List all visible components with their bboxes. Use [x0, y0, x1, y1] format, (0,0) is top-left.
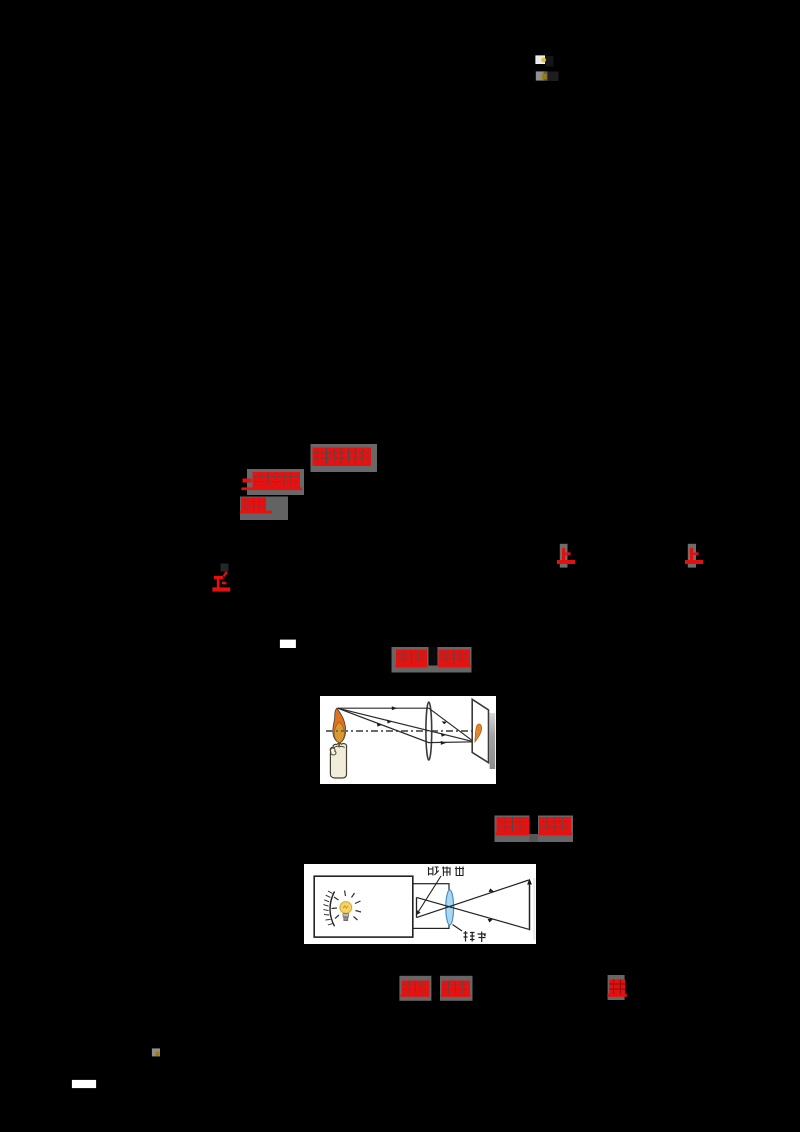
ray arrowheads	[377, 706, 447, 745]
label: jing tou (lens) pseudo-glyphs	[464, 931, 487, 942]
ray arrowheads	[488, 888, 494, 922]
convex lens (vertical ellipse)	[426, 702, 432, 760]
red single char answer (x~616) on gray box	[607, 975, 627, 1000]
slide (film) vertical line	[416, 897, 418, 917]
diagram 1: candle + convex lens + screen (white panel)	[320, 696, 496, 784]
flame inner (amber)	[334, 722, 344, 743]
diagram 2: slide projector (white panel)	[304, 864, 536, 944]
projector housing box	[314, 876, 413, 937]
projector lens (blue)	[446, 890, 454, 925]
ray 3: to lens bottom then to image	[338, 708, 474, 742]
ray 2: through lens center	[338, 708, 474, 742]
inverted flame image on screen	[475, 724, 482, 742]
mirror hatching	[323, 891, 332, 925]
faint right edge shadow	[533, 878, 535, 940]
doc icon 2 (dimmed square with dark yellow dot)	[536, 71, 559, 81]
red glyph B (shang) x~565 y~553 with gray strip	[557, 544, 575, 568]
red answer block A with gray highlight (x~312,y~447)	[311, 444, 378, 472]
slide holder box	[413, 884, 449, 929]
red glyph C (shang) x~693 y~553 with gray strip	[685, 544, 703, 568]
ray A: slide top through lens to screen bottom	[417, 897, 529, 929]
red answer pair 3 (y~988) on gray boxes	[399, 976, 472, 1001]
candle body	[330, 743, 346, 778]
screen vertical line with top arrow	[529, 882, 531, 930]
white rectangle bottom left	[72, 1080, 96, 1088]
screen (tilted white panel)	[472, 699, 488, 762]
ray B: slide bottom through lens to screen top	[417, 880, 529, 918]
red glyph A (zheng) near x 218 y 580	[212, 564, 230, 590]
label line to lens	[453, 925, 463, 932]
white dash x~288 y~644	[280, 640, 296, 648]
red answer pair 2 (y~825) on gray boxes	[495, 816, 574, 843]
flame outer	[333, 708, 346, 743]
candle melted drip	[330, 748, 336, 755]
label line to slide with arrow	[419, 876, 442, 912]
wick	[338, 742, 340, 747]
tiny gray icon with gold corner (x~155,y~1052)	[152, 1048, 160, 1056]
red answer block B line 1 (underlined)	[242, 469, 305, 495]
label: huan deng pian (slide) pseudo-glyphs	[429, 867, 465, 877]
red answer block B line 2 (underlined)	[240, 497, 288, 521]
white panel background	[304, 864, 536, 944]
concave mirror arc	[330, 892, 335, 927]
principal axis (dash-dot)	[326, 730, 472, 732]
red answer pair 1 (y~657) on gray band	[392, 647, 472, 673]
light rays from flame tip	[338, 708, 474, 742]
white panel background	[320, 696, 496, 784]
doc icon 1 (top right, white square with yellow dot)	[536, 56, 554, 67]
bulb rays	[332, 891, 362, 921]
ray 1: parallel then refracted	[338, 708, 474, 742]
screen shadow	[490, 713, 496, 769]
light bulb	[339, 901, 353, 915]
